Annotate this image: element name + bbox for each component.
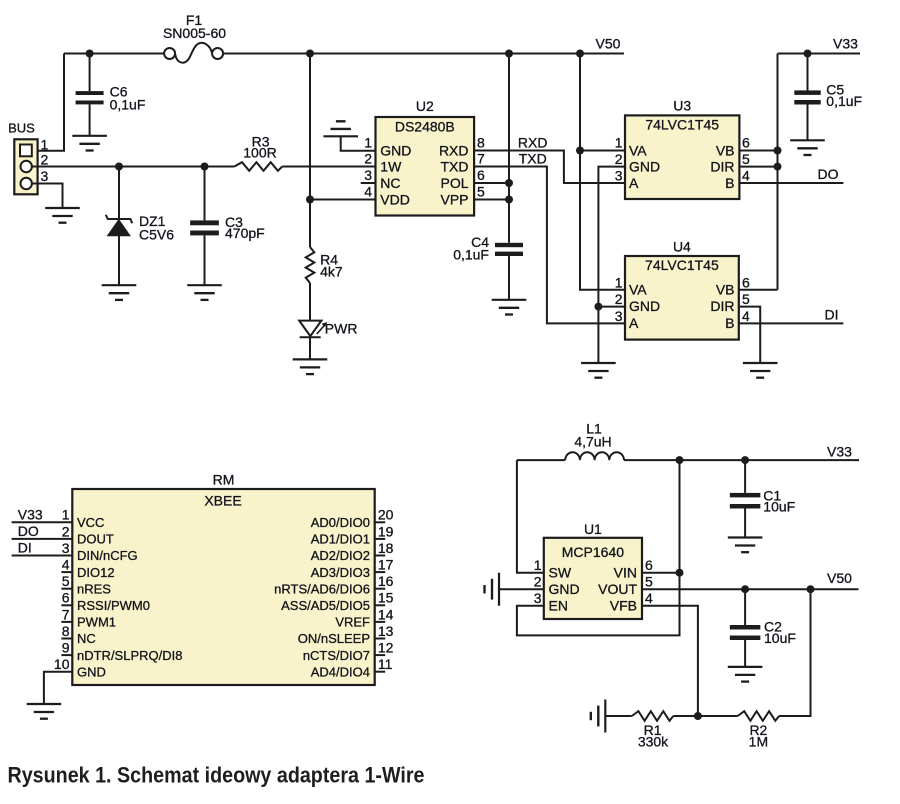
wire RM pin10 GND	[44, 672, 72, 704]
wire U3 VB to V33	[739, 150, 777, 152]
svg-text:Rysunek 1. Schemat ideowy adap: Rysunek 1. Schemat ideowy adaptera 1-Wir…	[8, 763, 425, 788]
svg-text:330k: 330k	[638, 733, 669, 749]
capacitor C3	[204, 167, 206, 221]
svg-text:EN: EN	[549, 598, 568, 614]
svg-text:5: 5	[62, 573, 70, 589]
resistor R4	[306, 247, 315, 283]
svg-text:0,1uF: 0,1uF	[826, 93, 862, 109]
svg-text:TXD: TXD	[441, 159, 469, 175]
wire R1 to R2	[673, 715, 737, 717]
wire EN loop	[517, 460, 680, 635]
wire gnd to R1	[605, 715, 632, 717]
ground BUS pin3	[45, 207, 80, 209]
capacitor C4	[495, 243, 523, 247]
svg-text:GND: GND	[629, 298, 660, 314]
wire left drop to BUS pin1	[33, 54, 64, 151]
junction dot VDD	[306, 196, 314, 204]
wire power rail right	[624, 459, 859, 461]
svg-text:XBEE: XBEE	[204, 493, 241, 509]
svg-text:2: 2	[41, 152, 49, 168]
svg-text:RXD: RXD	[518, 134, 548, 150]
svg-text:DOUT: DOUT	[77, 532, 114, 547]
ground RM GND	[27, 703, 62, 705]
junction dot C6 tap	[86, 50, 94, 58]
svg-text:3: 3	[615, 168, 623, 184]
capacitor C2	[744, 589, 746, 625]
svg-text:7: 7	[477, 151, 485, 167]
junction dot U3 DIR	[774, 163, 782, 171]
wire V33 rail	[778, 53, 861, 55]
svg-text:1: 1	[615, 274, 623, 290]
svg-text:GND: GND	[549, 581, 580, 597]
wire top rail left segment	[64, 53, 164, 55]
svg-text:8: 8	[477, 135, 485, 151]
svg-text:16: 16	[378, 573, 394, 589]
wire V33 vertical	[777, 54, 779, 290]
svg-text:3: 3	[615, 308, 623, 324]
wire VFB net	[642, 606, 698, 716]
inductor L1	[565, 452, 624, 460]
ground U4 DIR	[743, 362, 778, 364]
svg-text:4: 4	[62, 557, 70, 573]
wire R4 to LED	[309, 283, 311, 321]
wire VPP pin	[474, 199, 509, 201]
junction dot VIN	[676, 569, 684, 577]
svg-text:BUS: BUS	[8, 121, 35, 136]
ground U1 GND (sideways)	[498, 573, 500, 606]
svg-text:11: 11	[378, 656, 393, 672]
ground C2	[728, 666, 763, 668]
svg-text:VREF: VREF	[335, 615, 370, 630]
op-amp U2 DS2480B box	[376, 117, 475, 216]
svg-text:74LVC1T45: 74LVC1T45	[645, 257, 719, 273]
fuse F1	[164, 48, 175, 59]
junction dot VFB R1 R2	[694, 712, 702, 720]
junction dot top rail x580	[576, 50, 584, 58]
svg-text:VA: VA	[629, 142, 647, 158]
LED PWR	[299, 321, 321, 337]
ground PWR LED	[293, 358, 328, 360]
junction dot V50 R2	[807, 585, 815, 593]
ground U3/U4 GND	[581, 362, 616, 364]
svg-text:3: 3	[364, 167, 372, 183]
svg-text:AD1/DIO1: AD1/DIO1	[311, 532, 370, 547]
svg-text:GND: GND	[629, 159, 660, 175]
junction dot top rail x509	[505, 50, 513, 58]
zener diode DZ1	[118, 167, 120, 220]
svg-text:6: 6	[477, 167, 485, 183]
wire SW drop	[517, 460, 544, 573]
wire U1 GND pin	[499, 588, 544, 590]
svg-text:DIO12: DIO12	[77, 565, 115, 580]
svg-text:5: 5	[742, 151, 750, 167]
svg-text:0,1uF: 0,1uF	[453, 247, 489, 263]
svg-text:A: A	[629, 315, 639, 331]
junction dot top rail x310	[306, 50, 314, 58]
wire RXD net	[474, 151, 625, 184]
svg-text:U4: U4	[673, 239, 691, 255]
svg-text:1: 1	[364, 135, 372, 151]
resistor R2	[738, 711, 780, 721]
svg-text:4: 4	[742, 308, 750, 324]
junction dot POL	[505, 179, 513, 187]
svg-text:18: 18	[378, 540, 394, 556]
capacitor C1	[744, 460, 746, 493]
svg-text:POL: POL	[440, 175, 468, 191]
svg-text:470pF: 470pF	[225, 225, 265, 241]
wire top rail right segment	[223, 53, 624, 55]
svg-text:PWM1: PWM1	[77, 615, 116, 630]
wire U4 DIR to ground	[739, 307, 760, 363]
svg-text:3: 3	[41, 168, 49, 184]
svg-text:VIN: VIN	[614, 565, 637, 581]
svg-text:4: 4	[364, 184, 372, 200]
svg-text:DIN/nCFG: DIN/nCFG	[77, 548, 138, 563]
svg-text:15: 15	[378, 590, 394, 606]
svg-text:TXD: TXD	[519, 150, 547, 166]
svg-text:V50: V50	[596, 36, 621, 52]
svg-text:V33: V33	[827, 444, 852, 460]
junction dot V50 C2	[741, 585, 749, 593]
wire RM pin2 DO	[12, 538, 73, 540]
op-amp U4 74LVC1T45 box	[625, 256, 739, 340]
svg-text:5: 5	[477, 184, 485, 200]
svg-text:1: 1	[615, 135, 623, 151]
svg-text:10uF: 10uF	[763, 499, 795, 515]
wire TXD net	[474, 167, 625, 324]
svg-text:A: A	[629, 175, 639, 191]
junction dot DZ1 tap	[115, 163, 123, 171]
wire VOUT V50 rail	[642, 588, 859, 590]
svg-text:VCC: VCC	[77, 515, 104, 530]
svg-text:6: 6	[742, 135, 750, 151]
svg-text:1W: 1W	[380, 159, 402, 175]
capacitor C5	[807, 54, 809, 91]
RM right pin stubs	[375, 521, 386, 523]
wire R2 to V50	[779, 589, 810, 716]
ground C5	[790, 139, 825, 141]
wire LED to ground	[309, 337, 311, 359]
svg-text:VB: VB	[716, 142, 735, 158]
svg-text:VFB: VFB	[610, 598, 637, 614]
svg-text:nDTR/SLPRQ/DI8: nDTR/SLPRQ/DI8	[77, 648, 182, 663]
svg-text:9: 9	[62, 640, 70, 656]
svg-text:VB: VB	[716, 282, 735, 298]
op-amp U3 74LVC1T45 box	[625, 115, 739, 199]
svg-text:17: 17	[378, 557, 394, 573]
ground C1	[728, 536, 763, 538]
svg-text:6: 6	[62, 590, 70, 606]
wire RM pin1 V33	[12, 521, 73, 523]
wire U4 B DI	[739, 322, 844, 324]
wire U3 B DO	[739, 182, 843, 184]
svg-text:NC: NC	[77, 631, 96, 646]
svg-text:1: 1	[62, 507, 70, 523]
svg-text:DO: DO	[818, 166, 839, 182]
junction dot rail x679	[676, 456, 684, 464]
svg-text:RXD: RXD	[439, 143, 469, 159]
svg-text:DS2480B: DS2480B	[395, 119, 455, 135]
svg-text:B: B	[725, 315, 734, 331]
svg-text:5: 5	[645, 574, 653, 590]
svg-text:1: 1	[41, 136, 49, 152]
svg-text:DIR: DIR	[710, 298, 734, 314]
svg-text:20: 20	[378, 507, 394, 523]
svg-text:4k7: 4k7	[320, 263, 343, 279]
svg-text:GND: GND	[77, 664, 106, 679]
RM pin stubs 4-9	[61, 571, 72, 573]
svg-text:GND: GND	[380, 143, 411, 159]
svg-text:7: 7	[62, 606, 70, 622]
junction dot U3 VB	[774, 147, 782, 155]
svg-text:AD4/DIO4: AD4/DIO4	[311, 664, 370, 679]
svg-text:0,1uF: 0,1uF	[110, 97, 146, 113]
svg-text:MCP1640: MCP1640	[562, 544, 624, 560]
svg-text:3: 3	[62, 540, 70, 556]
svg-text:74LVC1T45: 74LVC1T45	[645, 116, 719, 132]
wire drop x580	[580, 54, 625, 290]
ground U2 pin1 (inverted)	[323, 135, 358, 137]
svg-text:VPP: VPP	[440, 192, 468, 208]
wire R3 to U2 1W	[282, 166, 375, 168]
wire drop x509	[508, 54, 510, 243]
svg-text:10uF: 10uF	[764, 630, 796, 646]
wire power rail left	[517, 459, 565, 461]
svg-text:ON/nSLEEP: ON/nSLEEP	[298, 631, 370, 646]
svg-text:SW: SW	[549, 565, 572, 581]
ground C3	[187, 284, 222, 286]
svg-text:nCTS/DIO7: nCTS/DIO7	[303, 648, 370, 663]
svg-text:4: 4	[742, 168, 750, 184]
wire U3 DIR to V33	[739, 166, 777, 168]
svg-text:5: 5	[742, 291, 750, 307]
junction dot C5 tap	[804, 50, 812, 58]
capacitor C6	[89, 54, 91, 92]
svg-text:2: 2	[364, 151, 372, 167]
svg-text:RSSI/PWM0: RSSI/PWM0	[77, 598, 150, 613]
wire POL pin	[474, 182, 509, 184]
svg-text:2: 2	[62, 523, 70, 539]
svg-text:NC: NC	[380, 175, 400, 191]
wire drop x310	[309, 54, 311, 248]
svg-text:13: 13	[378, 623, 394, 639]
svg-text:1M: 1M	[749, 733, 768, 749]
connector BUS	[14, 139, 37, 194]
svg-text:PWR: PWR	[325, 320, 358, 336]
op-amp RM XBEE box	[72, 489, 374, 685]
svg-text:RM: RM	[213, 472, 235, 488]
svg-text:V50: V50	[827, 570, 852, 586]
ground C4	[492, 299, 527, 301]
svg-text:2: 2	[615, 291, 623, 307]
svg-text:19: 19	[378, 523, 394, 539]
svg-text:14: 14	[378, 606, 394, 622]
wire U4 GND pin	[598, 306, 625, 308]
svg-text:2: 2	[534, 574, 542, 590]
ground DZ1	[102, 284, 137, 286]
wire BUS pin3 to ground	[32, 184, 63, 209]
junction dot rail C1	[741, 456, 749, 464]
junction dot U3 VA	[576, 147, 584, 155]
op-amp U1 MCP1640 box	[544, 538, 642, 619]
svg-text:SN005-60: SN005-60	[163, 25, 226, 41]
svg-text:B: B	[725, 175, 734, 191]
junction dot U3/U4 GND	[594, 303, 602, 311]
svg-text:V33: V33	[18, 506, 43, 522]
wire VIN pin	[642, 572, 680, 574]
wire U2 pin1 GND	[341, 136, 376, 150]
wire U4 VB to V33	[739, 289, 778, 291]
ground R1 left (sideways)	[604, 700, 606, 733]
junction dot VPP	[505, 196, 513, 204]
U2 pin3 NC stub	[361, 182, 376, 184]
svg-text:AD2/DIO2: AD2/DIO2	[311, 548, 370, 563]
svg-text:4,7uH: 4,7uH	[574, 434, 611, 450]
svg-text:2: 2	[615, 151, 623, 167]
svg-text:AD0/DIO0: AD0/DIO0	[311, 515, 370, 530]
ground C6	[72, 135, 107, 137]
wire BUS pin2 to R3	[32, 166, 234, 168]
svg-text:ASS/AD5/DIO5: ASS/AD5/DIO5	[281, 598, 370, 613]
svg-text:DI: DI	[18, 540, 32, 556]
svg-text:DI: DI	[825, 306, 839, 322]
svg-text:U2: U2	[416, 98, 434, 114]
wire U3 pin1 VA	[580, 150, 625, 152]
junction dot C3 tap	[201, 163, 209, 171]
svg-text:3: 3	[534, 590, 542, 606]
svg-text:4: 4	[645, 590, 653, 606]
wire U3 GND net	[598, 167, 625, 363]
wire VDD pin	[310, 199, 376, 201]
svg-text:V33: V33	[833, 36, 858, 52]
svg-text:1: 1	[534, 557, 542, 573]
svg-text:C5V6: C5V6	[139, 227, 174, 243]
svg-text:6: 6	[645, 557, 653, 573]
svg-text:U1: U1	[584, 521, 602, 537]
svg-text:DIR: DIR	[710, 159, 734, 175]
svg-text:VA: VA	[629, 282, 647, 298]
svg-text:8: 8	[62, 623, 70, 639]
svg-text:VOUT: VOUT	[598, 581, 637, 597]
svg-text:AD3/DIO3: AD3/DIO3	[311, 565, 370, 580]
svg-text:12: 12	[378, 640, 394, 656]
svg-text:100R: 100R	[243, 145, 276, 161]
svg-text:10: 10	[54, 656, 70, 672]
svg-text:6: 6	[742, 274, 750, 290]
svg-text:DO: DO	[18, 523, 39, 539]
wire RM pin3 DI	[12, 555, 73, 557]
svg-text:VDD: VDD	[380, 192, 410, 208]
svg-text:nRTS/AD6/DIO6: nRTS/AD6/DIO6	[274, 581, 370, 596]
resistor R3	[234, 162, 282, 171]
svg-text:U3: U3	[673, 98, 691, 114]
resistor R1	[632, 711, 674, 721]
svg-text:nRES: nRES	[77, 581, 111, 596]
